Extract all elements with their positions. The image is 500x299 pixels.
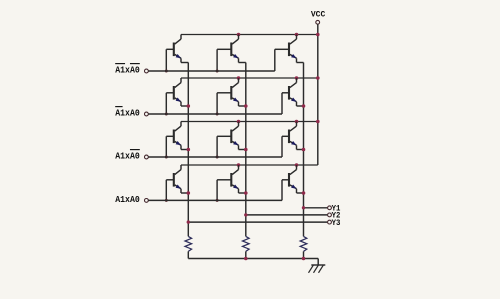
resistor R2 [243,236,250,258]
node Q6 emitter / column junction [302,104,306,108]
wire Q1 emitter drop [181,58,188,62]
transistor Q1 (row 1, col 1) [174,35,181,59]
wire Q3 base stub [275,49,289,71]
node rail 2 / Q col3 collector junction [295,76,299,80]
transistor Q8 (row 3, col 2) [231,122,238,146]
svg-text:VCC: VCC [311,10,325,20]
node Q8 base / input row junction [216,156,219,159]
node Q10 emitter / column junction [187,191,191,195]
transistor Q4 (row 2, col 1) [174,78,181,102]
node R3 / bottom rail junction [302,257,306,261]
wire VCC vertical rail [317,24,319,165]
transistor Q5 (row 2, col 2) [231,78,238,102]
wire Q2 emitter drop [239,58,246,62]
input terminal row 1 [145,69,149,73]
resistor R3 [300,236,307,258]
node R2 / bottom rail junction [244,257,248,261]
wire Q7 base stub [166,136,174,157]
wire Q10 base stub [166,180,174,201]
transistor Q10 (row 4, col 1) [174,165,181,189]
wire input row 4 line [148,199,282,201]
wire Q7 emitter drop [181,145,188,149]
node rail 4 / Q col2 collector junction [237,163,241,167]
node Q8 emitter / column junction [244,148,248,152]
input terminal row 3 [145,155,149,159]
node Q11 base / input row junction [216,199,219,202]
wire input row 2 line [148,113,282,115]
wire collector rail row 1 [181,34,318,36]
wire output Y2 line [246,214,328,216]
wire Q3 emitter drop [297,58,304,62]
node rail 2 / Q col2 collector junction [237,76,241,80]
node rail 1 / VCC junction [316,33,320,37]
transistor Q9 (row 3, col 3) [289,122,297,146]
node rail 4 / Q col3 collector junction [295,163,299,167]
label input row 1 A1xA0 [115,64,140,76]
node rail 1 / Q col2 collector junction [237,33,241,37]
svg-text:A1xA0: A1xA0 [115,107,140,118]
output terminal Y1 [328,204,341,214]
wire Q8 emitter drop [239,145,246,149]
label input row 4 A1xA0 [115,194,140,205]
wire output Y3 line [188,221,327,223]
wire output Y1 line [304,207,328,209]
node Q9 emitter / column junction [302,148,306,152]
wire collector rail row 3 [181,121,318,123]
node Y3 / column junction [187,220,190,223]
wire Q8 base stub [217,136,231,157]
input terminal row 2 [145,112,149,116]
svg-text:Y3: Y3 [332,218,341,228]
resistor R1 [185,236,192,258]
wire Q11 emitter drop [239,189,246,193]
wire input row 1 line [148,70,274,72]
node rail 3 / VCC junction [316,120,320,124]
wire Q4 base stub [166,93,174,114]
transistor Q6 (row 2, col 3) [289,78,297,102]
node rail 1 / Q col3 collector junction [295,33,299,37]
wire Q12 emitter drop [297,189,304,193]
transistor Q11 (row 4, col 2) [231,165,238,189]
wire Q11 base stub [217,180,231,201]
wire bottom ground rail [188,259,318,266]
node Q12 emitter / column junction [302,191,306,195]
wire Q5 emitter drop [239,102,246,106]
node Q5 base / input row junction [216,113,219,116]
wire output column 2 vertical [245,63,247,237]
svg-text:A1xA0: A1xA0 [115,64,140,75]
output terminal Y3 [328,218,341,228]
wire input row 3 line [148,156,282,158]
wire output column 3 vertical [303,63,305,237]
node Q7 emitter / column junction [187,148,191,152]
node Y2 / column junction [244,213,247,216]
wire Q10 emitter drop [181,189,188,193]
wire Q6 base stub [282,93,289,114]
node Q1 base / input row junction [165,70,168,73]
node Q4 base / input row junction [165,113,168,116]
svg-text:A1xA0: A1xA0 [115,194,140,205]
svg-text:A1xA0: A1xA0 [115,150,140,161]
transistor Q7 (row 3, col 1) [174,122,181,146]
power VCC terminal [311,10,325,24]
wire Q9 emitter drop [297,145,304,149]
wire output column 1 vertical [187,63,189,237]
node rail 3 / Q col2 collector junction [237,120,241,124]
node Q7 base / input row junction [165,156,168,159]
wire Q9 base stub [282,136,289,157]
node Y1 / column junction [302,206,305,209]
wire Q6 emitter drop [297,102,304,106]
wire collector rail row 2 [181,77,318,79]
label input row 2 A1xA0 [115,107,140,119]
transistor Q3 (row 1, col 3) [289,35,297,59]
input terminal row 4 [145,199,149,203]
node Q2 base / input row junction [216,70,219,73]
transistor Q2 (row 1, col 2) [231,35,238,59]
wire collector rail row 4 [181,164,318,166]
wire Q1 base stub [166,49,174,71]
node rail 3 / Q col3 collector junction [295,120,299,124]
transistor Q12 (row 4, col 3) [289,165,297,189]
wire Q5 base stub [217,93,231,114]
wire Q2 base stub [217,49,231,71]
ground [309,265,326,273]
wire Q4 emitter drop [181,102,188,106]
output terminal Y2 [328,211,341,221]
wire Q12 base stub [282,180,289,201]
node Q5 emitter / column junction [244,104,248,108]
label input row 3 A1xA0 [115,150,140,162]
node Q11 emitter / column junction [244,191,248,195]
node rail 2 / VCC junction [316,76,320,80]
node Q10 base / input row junction [165,199,168,202]
node Q4 emitter / column junction [187,104,191,108]
